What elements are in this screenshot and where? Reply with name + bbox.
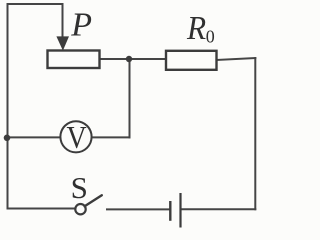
svg-text:P: P: [70, 7, 92, 44]
battery negative plate (short): [169, 201, 171, 221]
battery positive plate (long): [179, 193, 181, 228]
svg-text:V: V: [67, 121, 88, 156]
voltmeter V: [60, 121, 91, 152]
wire voltmeter branch right: [92, 136, 130, 138]
wire right rail: [254, 58, 256, 209]
wire voltmeter branch left: [8, 136, 61, 138]
wire bottom left to switch: [8, 208, 76, 210]
wire top (from left rail to wiper drop): [8, 3, 63, 5]
wire R0 to top-right corner: [217, 58, 256, 60]
switch S pivot: [75, 204, 85, 214]
svg-text:R: R: [186, 10, 206, 47]
node junction dot (left rail / voltmeter): [4, 135, 11, 142]
svg-text:S: S: [71, 170, 88, 205]
switch S lever: [85, 195, 102, 206]
wire wiper vertical drop: [62, 4, 64, 38]
svg-text:0: 0: [206, 26, 215, 46]
resistor R0 box: [166, 51, 217, 70]
wire left rail: [7, 4, 9, 209]
node junction dot (pot / R0 / voltmeter): [126, 56, 132, 62]
potentiometer wiper arrowhead: [56, 36, 69, 50]
wire switch to battery: [107, 208, 169, 210]
wire battery to right rail: [182, 208, 256, 210]
wire pot to junction to R0: [100, 58, 167, 60]
potentiometer P box: [48, 51, 100, 69]
wire voltmeter branch up to junction: [129, 59, 131, 137]
